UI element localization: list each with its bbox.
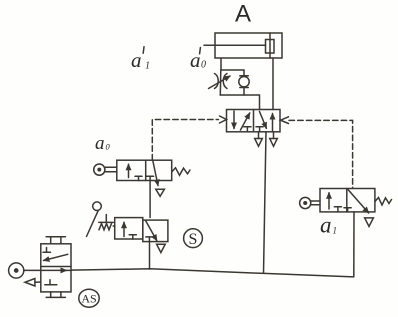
main valve right pilot arrowhead [281, 117, 289, 124]
valve a0 roller [94, 164, 117, 175]
valve AS top box flow path [43, 248, 68, 261]
main valve exhaust stub left [258, 132, 260, 139]
wire cylinder left port [220, 58, 222, 70]
valve a1 right box flow path [344, 190, 369, 213]
svg-text:a: a [320, 213, 332, 238]
valve AS push button [9, 263, 24, 278]
svg-text:0: 0 [201, 59, 206, 70]
main valve exhaust triangle left [255, 139, 263, 147]
valve a1 roller [300, 197, 320, 208]
wire flow-control top branch [221, 69, 244, 71]
valve AS output flow path [24, 269, 67, 271]
check valve [239, 70, 249, 95]
valve AS exhaust [25, 279, 41, 287]
wire a1 supply drop [353, 212, 355, 277]
svg-text:1: 1 [333, 226, 338, 236]
valve S exhaust triangle [157, 244, 166, 252]
valve a1 return spring [375, 198, 392, 206]
svg-text:a: a [131, 48, 142, 72]
wire main supply bus [71, 269, 354, 277]
valve AS body [41, 244, 71, 292]
valve S right box flow path [146, 221, 157, 242]
main valve exhaust triangle right [270, 139, 278, 147]
valve a1 exhaust triangle [365, 218, 374, 227]
label AS [79, 289, 99, 307]
label a1 [320, 213, 337, 238]
label a0' [190, 48, 206, 72]
valve S lever actuator [87, 202, 102, 237]
main valve right box flow paths [256, 112, 273, 132]
wire S supply drop [149, 242, 151, 269]
valve a1 left box flow path [329, 193, 342, 212]
valve AS top port cap [46, 237, 65, 244]
svg-text:1: 1 [145, 61, 150, 72]
cylinder A [204, 33, 282, 58]
wire main valve P supply [264, 132, 267, 273]
valve a1 body [320, 189, 375, 212]
pilot wire right (dashed, from a1) [289, 120, 353, 188]
valve S detent [99, 215, 115, 230]
throttle valve [209, 70, 231, 95]
valve a0 left box flow path [129, 164, 143, 180]
wire cylinder right port to valve port B [272, 58, 274, 110]
svg-text:a: a [95, 133, 105, 154]
main valve left pilot arrowhead [220, 116, 227, 123]
svg-text:AS: AS [81, 292, 96, 306]
svg-text:S: S [189, 231, 198, 248]
svg-text:a: a [190, 48, 201, 72]
wire flow-control bottom to valve port A [220, 95, 259, 110]
valve AS bottom port cap [46, 292, 65, 298]
valve S left box flow path [124, 222, 136, 239]
label a0 [95, 133, 111, 154]
valve AS bottom box blocked port [45, 280, 57, 285]
label a1' [131, 47, 150, 72]
pilot wire left (dashed, from a0) [152, 120, 218, 161]
svg-text:A: A [235, 0, 251, 27]
wire a0 supply from valve S [149, 181, 151, 218]
main valve U1 body [227, 110, 281, 132]
valve a0 exhaust triangle [156, 189, 165, 196]
valve a0 return spring [172, 168, 190, 176]
main valve exhaust stub right [273, 132, 275, 139]
label S [184, 229, 203, 248]
valve S body [115, 218, 168, 242]
main valve left box flow paths [234, 111, 251, 132]
valve a0 right box flow path [147, 161, 158, 186]
valve a0 body [117, 160, 172, 180]
